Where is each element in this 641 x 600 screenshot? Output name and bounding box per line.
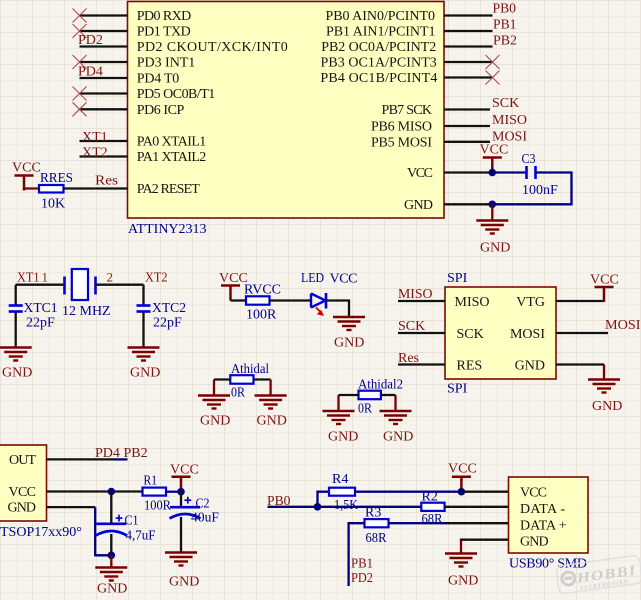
svg-text:GND: GND	[592, 399, 622, 414]
svg-text:22pF: 22pF	[26, 316, 55, 331]
junction at C1 bottom	[108, 552, 116, 560]
svg-text:PB1 AIN1/PCINT1: PB1 AIN1/PCINT1	[326, 25, 436, 40]
no-ERC X on PB4	[486, 71, 500, 85]
wire VCC to RRES	[24, 189, 39, 190]
svg-text:VCC: VCC	[9, 485, 37, 500]
svg-text:PD4: PD4	[95, 446, 120, 461]
svg-text:GND: GND	[169, 575, 199, 590]
wire Athidal left	[214, 378, 230, 380]
svg-text:RES: RES	[457, 359, 483, 374]
resistor R1 100R	[143, 488, 167, 496]
no-ERC X on PD1	[73, 24, 87, 38]
wire OUT net	[113, 458, 128, 460]
svg-text:100R: 100R	[144, 499, 172, 514]
resistor R2 68R	[421, 503, 444, 511]
wire R4 left corner	[318, 492, 330, 507]
U1 pin PA2	[80, 187, 128, 189]
U1 pin PD3	[80, 61, 128, 63]
svg-text:VTG: VTG	[516, 295, 545, 310]
svg-text:VCC: VCC	[590, 273, 619, 288]
SPI pin SCK	[398, 332, 445, 334]
svg-text:C2: C2	[196, 497, 210, 512]
wire Athidal2 right	[381, 394, 396, 396]
resistor Athidal2 0R	[359, 391, 381, 400]
U1 pin GND	[444, 203, 493, 205]
resistor R4 1,5K	[329, 488, 355, 496]
U1 pin PA0	[80, 140, 128, 142]
svg-text:40uF: 40uF	[191, 511, 219, 526]
svg-text:GND: GND	[520, 535, 549, 550]
svg-text:PB5 MOSI: PB5 MOSI	[371, 136, 432, 151]
svg-text:PD3 INT1: PD3 INT1	[137, 56, 196, 71]
svg-text:C3: C3	[522, 152, 536, 167]
TSOP pin labels	[8, 453, 37, 516]
svg-text:R1: R1	[144, 474, 158, 489]
svg-text:PD4: PD4	[78, 65, 103, 80]
svg-text:RVCC: RVCC	[244, 283, 281, 298]
svg-text:GND: GND	[448, 574, 478, 589]
svg-text:R2: R2	[422, 490, 438, 505]
ground at Athidal right	[269, 380, 271, 396]
diode LED	[311, 293, 326, 316]
svg-text:PB0 AIN0/PCINT0: PB0 AIN0/PCINT0	[326, 9, 436, 24]
no-ERC X on PD3	[73, 55, 87, 69]
ground at USB	[460, 540, 462, 553]
ground at Athidal2 right	[394, 395, 396, 411]
svg-text:PB2: PB2	[493, 34, 517, 49]
svg-text:22pF: 22pF	[153, 316, 182, 331]
ground at Athidal left	[213, 380, 215, 396]
svg-text:DATA -: DATA -	[520, 502, 565, 517]
svg-text:PB1: PB1	[493, 18, 517, 33]
svg-text:R4: R4	[332, 472, 348, 487]
svg-text:GND: GND	[257, 414, 287, 429]
U1 pin PD0	[80, 14, 128, 16]
svg-text:XT2: XT2	[82, 145, 108, 160]
U1 pin PB4	[444, 76, 493, 78]
U1 pin PB2	[444, 45, 493, 47]
svg-text:100nF: 100nF	[522, 183, 558, 198]
capacitor C3 100nF	[527, 166, 536, 179]
svg-text:Res: Res	[95, 174, 118, 189]
U1 pin PB7	[444, 108, 490, 110]
svg-text:PB4 OC1B/PCINT4: PB4 OC1B/PCINT4	[320, 71, 437, 86]
resistor Athidal 0R	[230, 375, 253, 384]
svg-text:PB2: PB2	[124, 446, 148, 461]
svg-text:VCC: VCC	[407, 166, 433, 181]
svg-text:PA1 XTAIL2: PA1 XTAIL2	[137, 150, 207, 165]
ground at XTC2	[128, 348, 160, 361]
svg-text:PB2 OC0A/PCINT2: PB2 OC0A/PCINT2	[321, 40, 436, 55]
SPI pin GND out	[556, 363, 604, 365]
SPI pin MOSI out	[556, 332, 608, 334]
svg-text:GND: GND	[515, 359, 545, 374]
U1 pin name labels left	[137, 9, 288, 197]
svg-text:OUT: OUT	[9, 453, 36, 468]
svg-text:12 MHZ: 12 MHZ	[62, 304, 111, 319]
svg-text:Athidal2: Athidal2	[358, 378, 403, 393]
no-ERC X on PD0	[73, 9, 87, 23]
svg-text:0R: 0R	[231, 386, 246, 401]
TSOP pin VCC wire	[47, 490, 143, 492]
capacitor XTC2 22pF	[137, 306, 151, 312]
svg-text:PB1: PB1	[351, 557, 373, 572]
svg-text:XTC1: XTC1	[24, 301, 58, 316]
wire XTC2 to ground	[142, 313, 144, 348]
wire XT1 to crystal	[16, 284, 64, 286]
svg-text:GND: GND	[97, 582, 127, 597]
svg-text:MOSI: MOSI	[605, 318, 641, 333]
ground at XTC1	[0, 348, 32, 361]
U1 pin PA1	[80, 155, 128, 157]
U1 pin VCC	[444, 171, 493, 173]
svg-text:GND: GND	[383, 430, 413, 445]
svg-text:GND: GND	[2, 366, 32, 381]
wire RRES to PA2	[64, 187, 81, 189]
wire C3 to GND loop	[492, 173, 571, 205]
wire Athidal right	[254, 378, 271, 380]
svg-text:SPI: SPI	[447, 271, 468, 286]
svg-text:GND: GND	[328, 430, 358, 445]
USB GND pin	[461, 540, 509, 542]
SPI pin VTG	[556, 300, 604, 302]
svg-text:ATTINY2313: ATTINY2313	[128, 222, 207, 237]
svg-text:VCC: VCC	[480, 143, 509, 158]
svg-text:1,5K: 1,5K	[334, 498, 358, 513]
U1 pin PD5	[80, 92, 128, 94]
svg-text:4,7uF: 4,7uF	[126, 529, 156, 544]
svg-text:0R: 0R	[358, 402, 373, 417]
svg-text:VCC: VCC	[170, 463, 199, 478]
svg-text:MOSI: MOSI	[510, 327, 545, 342]
svg-text:1: 1	[42, 270, 49, 285]
ground at IC GND	[491, 204, 493, 219]
wire VCC pin to C3	[492, 171, 526, 173]
svg-text:C1: C1	[125, 514, 139, 529]
svg-text:GND: GND	[200, 414, 230, 429]
svg-text:DATA +: DATA +	[520, 519, 567, 534]
wire down to XTC1	[15, 285, 17, 305]
resistor RVCC 100R	[246, 296, 270, 304]
capacitor XTC1 22pF	[9, 306, 23, 312]
connector USB90 SMD body	[509, 477, 589, 553]
wire XTC1 to ground	[15, 313, 17, 348]
junction at C2 top	[177, 488, 185, 496]
junction at C1 top	[108, 488, 116, 496]
svg-text:RRES: RRES	[40, 171, 73, 186]
svg-text:SCK: SCK	[457, 327, 484, 342]
svg-text:PD2: PD2	[78, 33, 103, 48]
ground at C1	[110, 555, 112, 567]
TSOP pin OUT wire	[47, 458, 114, 460]
svg-text:PD4 T0: PD4 T0	[137, 72, 180, 87]
watermark logo	[556, 555, 641, 595]
svg-text:MISO: MISO	[492, 113, 527, 128]
USB VCC pin	[461, 491, 508, 493]
wire LED to ground	[326, 301, 349, 318]
svg-text:XTC2: XTC2	[152, 301, 186, 316]
svg-text:PB3 OC1A/PCINT3: PB3 OC1A/PCINT3	[321, 56, 437, 71]
svg-text:R3: R3	[365, 506, 381, 521]
module TSOP17xx90 body	[0, 445, 47, 521]
wire RVCC to LED	[270, 299, 311, 301]
USB DATA+ pin	[445, 522, 509, 524]
svg-text:PA0 XTAIL1: PA0 XTAIL1	[137, 135, 207, 150]
svg-text:GND: GND	[404, 198, 433, 213]
svg-text:100R: 100R	[246, 308, 277, 323]
wire R4 to VCC junction	[355, 491, 461, 493]
IC U1 ATTINY2313 body	[128, 2, 445, 219]
U1 pin PD6	[80, 108, 128, 110]
ground at SPI	[603, 365, 605, 380]
U1 pin PD4	[80, 77, 128, 79]
svg-text:PA2 RESET: PA2 RESET	[137, 182, 200, 197]
svg-text:MISO: MISO	[455, 295, 490, 310]
U1 pin PD2	[80, 45, 128, 47]
wire PB1/PD2 vertical	[349, 523, 365, 586]
no-ERC X on PD5	[73, 87, 87, 101]
svg-text:GND: GND	[480, 241, 510, 256]
svg-text:GND: GND	[334, 336, 364, 351]
U1 pin PB0	[444, 14, 493, 16]
wire R1 to VCC junction	[166, 491, 181, 493]
no-ERC X on PD6	[73, 102, 87, 116]
crystal Y1 12 MHZ	[65, 269, 96, 300]
USB DATA- pin	[445, 506, 509, 508]
svg-text:68R: 68R	[366, 531, 388, 546]
svg-text:Res: Res	[398, 351, 419, 366]
svg-text:PD2: PD2	[351, 571, 373, 586]
svg-text:XT2: XT2	[145, 271, 168, 286]
svg-text:68R: 68R	[422, 512, 444, 527]
ground at Athidal2 left	[337, 395, 339, 411]
capacitor C2 40uF	[170, 492, 201, 552]
USB pin labels	[520, 486, 567, 550]
wire R3 to USB	[389, 522, 446, 524]
U1 pin PB3	[444, 61, 493, 63]
wire GND net L	[95, 507, 111, 555]
wire Athidal2 left	[339, 394, 359, 396]
svg-text:VCC: VCC	[12, 161, 41, 176]
svg-text:MISO: MISO	[398, 287, 433, 302]
svg-text:PB7 SCK: PB7 SCK	[382, 103, 433, 118]
SPI pin RES	[398, 363, 445, 365]
wire crystal to XT2	[96, 284, 144, 286]
TSOP pin GND wire	[47, 506, 96, 508]
wire down to XTC2	[142, 285, 144, 305]
resistor RRES 10K	[39, 185, 64, 193]
svg-text:PD6 ICP: PD6 ICP	[137, 103, 185, 118]
svg-text:SCK: SCK	[492, 96, 519, 111]
svg-text:PB6 MISO: PB6 MISO	[371, 120, 432, 135]
U1 pin PD1	[80, 30, 128, 32]
wire PB0 to junction	[268, 506, 422, 508]
svg-text:GND: GND	[130, 366, 160, 381]
svg-text:PD2 CKOUT/XCK/INT0: PD2 CKOUT/XCK/INT0	[137, 40, 288, 55]
junction at USB VCC	[458, 488, 466, 496]
svg-text:PB0: PB0	[493, 2, 517, 17]
resistor R3 68R	[365, 519, 389, 527]
U1 pin name labels right	[320, 9, 437, 213]
svg-text:XT1: XT1	[17, 271, 40, 286]
svg-text:PD1 TXD: PD1 TXD	[137, 25, 191, 40]
junction PB0/R4	[314, 503, 322, 511]
svg-text:10K: 10K	[41, 197, 65, 212]
svg-text:SPI: SPI	[447, 382, 468, 397]
ground at LED	[333, 317, 365, 330]
SPI pin MISO	[398, 300, 445, 302]
svg-text:2: 2	[107, 270, 114, 285]
svg-text:SCK: SCK	[398, 319, 425, 334]
connector SPI body	[445, 287, 556, 379]
U1 pin PB6	[444, 125, 490, 127]
no-ERC X on PB3	[486, 55, 500, 69]
wire VCC to RVCC	[231, 299, 247, 301]
svg-text:PD5 OC0B/T1: PD5 OC0B/T1	[137, 87, 216, 102]
svg-text:LED: LED	[301, 271, 324, 286]
svg-text:VCC: VCC	[330, 272, 358, 287]
svg-text:VCC: VCC	[520, 486, 547, 501]
junction at GND pin	[489, 201, 497, 209]
U1 pin PB1	[444, 30, 493, 32]
svg-text:Athidal: Athidal	[231, 362, 269, 377]
svg-text:VCC: VCC	[448, 462, 477, 477]
svg-text:PD0 RXD: PD0 RXD	[137, 9, 192, 24]
ground at C2	[165, 553, 197, 566]
SPI pin labels	[455, 295, 490, 374]
junction at VCC pin	[489, 169, 497, 177]
svg-text:TSOP17xx90°: TSOP17xx90°	[0, 525, 82, 540]
svg-text:XT1: XT1	[82, 130, 108, 145]
svg-text:GND: GND	[8, 501, 37, 516]
capacitor C1 4,7uF	[96, 492, 127, 556]
U1 pin PB5	[444, 141, 490, 143]
